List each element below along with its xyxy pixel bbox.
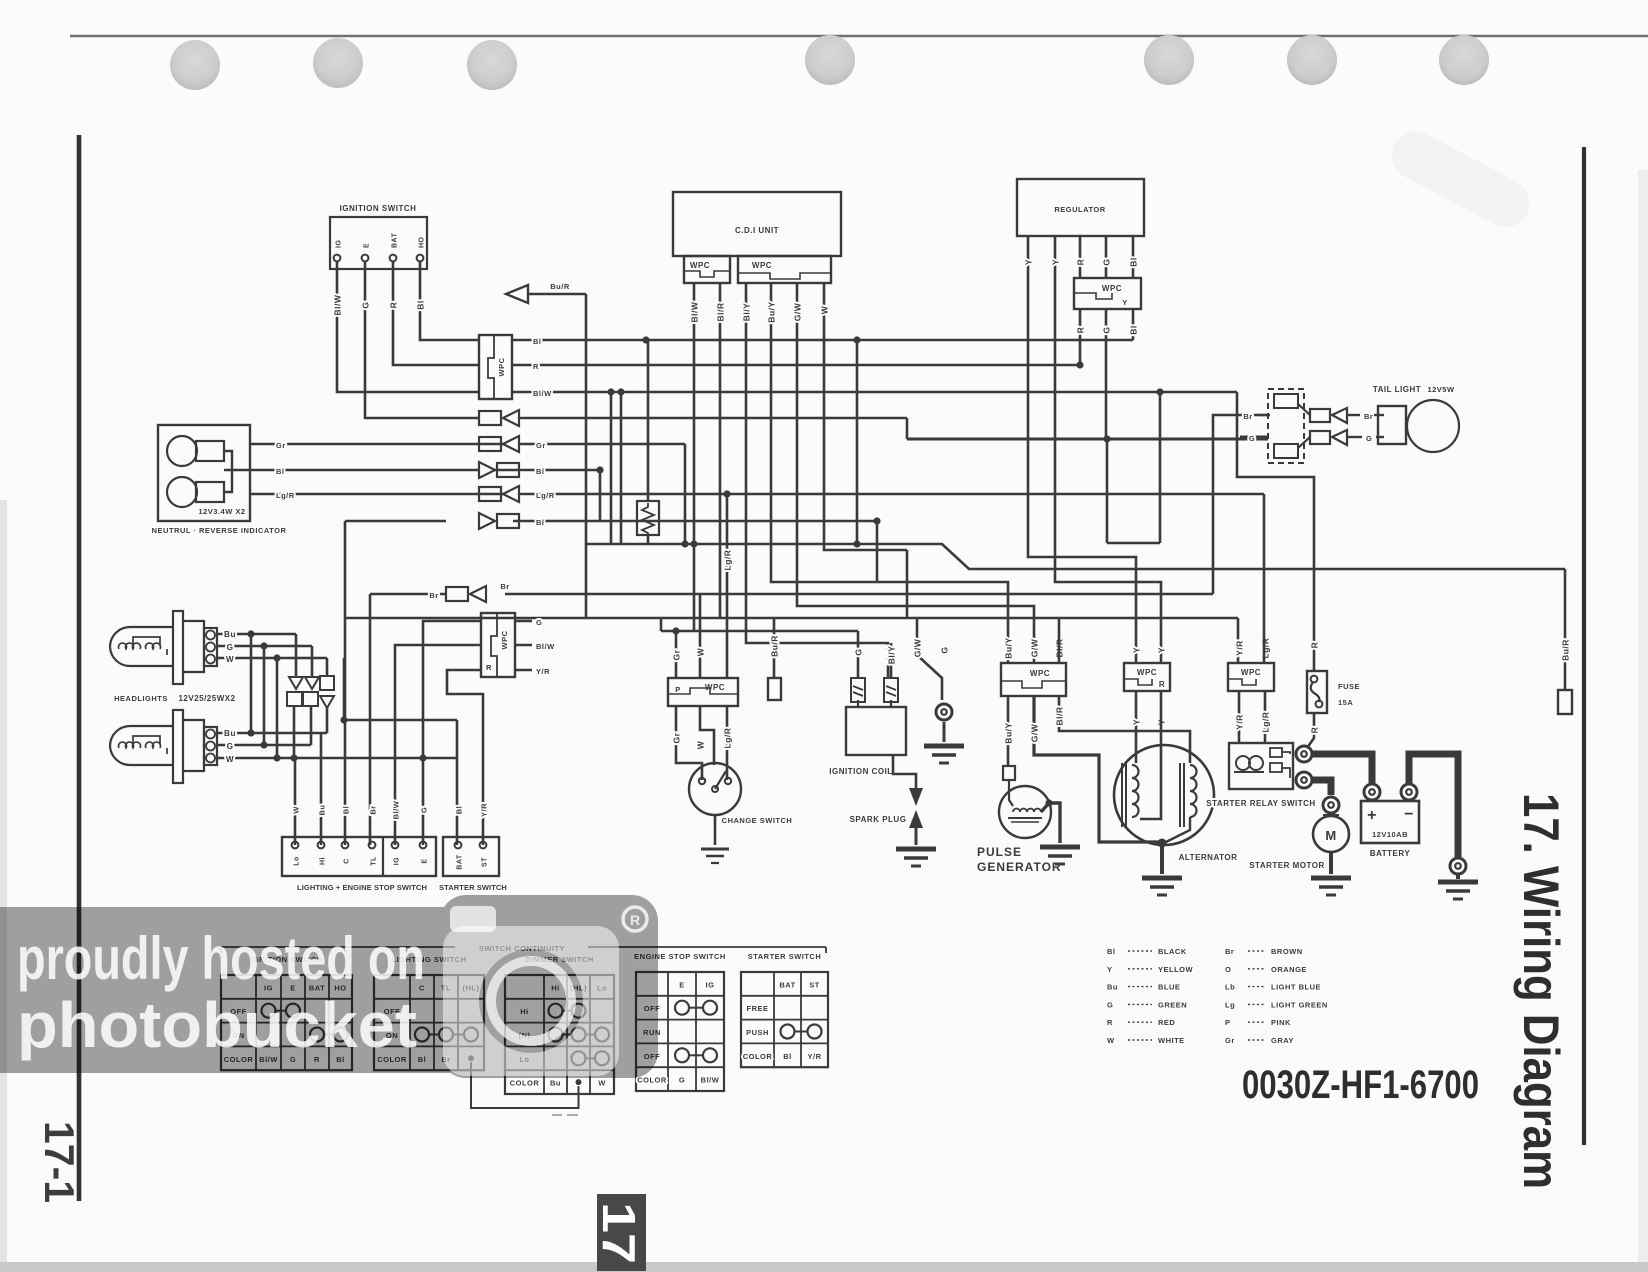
svg-text:G: G	[536, 618, 542, 627]
svg-text:Hi: Hi	[320, 857, 327, 865]
wire Bl/W bus y392	[512, 388, 1237, 398]
svg-text:WPC: WPC	[1241, 668, 1261, 677]
relay eyelet terminals	[1296, 746, 1312, 788]
punch holes	[170, 35, 1489, 90]
svg-text:G: G	[1249, 434, 1255, 443]
svg-text:0030Z-HF1-6700: 0030Z-HF1-6700	[1242, 1063, 1479, 1107]
svg-text:BROWN: BROWN	[1271, 947, 1303, 956]
wire G coil bus y631	[661, 618, 858, 635]
svg-text:G: G	[854, 648, 864, 655]
starter relay wires	[1235, 494, 1271, 743]
svg-text:12V25/25WX2: 12V25/25WX2	[178, 694, 235, 703]
wire G bus y439	[907, 392, 1268, 543]
svg-text:WPC: WPC	[1030, 669, 1050, 678]
svg-text:FREE: FREE	[746, 1004, 768, 1013]
svg-text:E: E	[422, 858, 429, 863]
svg-text:Bl/Y: Bl/Y	[887, 646, 897, 665]
svg-text:R: R	[1107, 1018, 1113, 1027]
svg-text:15A: 15A	[1338, 698, 1353, 707]
svg-text:Y/R: Y/R	[480, 803, 489, 817]
svg-text:STARTER SWITCH: STARTER SWITCH	[439, 883, 507, 892]
svg-text:Bu/R: Bu/R	[1561, 639, 1571, 661]
svg-text:Y/R: Y/R	[1235, 714, 1245, 730]
connector row Bl (y521)	[479, 513, 545, 529]
svg-text:O: O	[1225, 965, 1231, 974]
svg-text:BAT: BAT	[779, 980, 795, 989]
connector WPC (starter relay)	[1228, 638, 1274, 691]
alternator wires Y Y	[1132, 691, 1167, 752]
svg-text:Bl: Bl	[783, 1052, 792, 1061]
svg-text:Lg/R: Lg/R	[723, 550, 733, 571]
svg-text:LIGHTING + ENGINE STOP SWITCH: LIGHTING + ENGINE STOP SWITCH	[297, 883, 427, 892]
tail light connector (dashed)	[1240, 389, 1310, 463]
svg-text:−: −	[1404, 806, 1414, 823]
wire Y/R bus y618	[345, 618, 1238, 663]
svg-text:Bu/R: Bu/R	[550, 282, 570, 291]
wire color legend	[1107, 947, 1328, 1045]
left border line	[77, 135, 82, 1201]
svg-text:Y: Y	[1024, 259, 1034, 265]
svg-text:Y/R: Y/R	[1235, 640, 1245, 656]
svg-text:Gr: Gr	[1225, 1036, 1235, 1045]
svg-text:Gr: Gr	[672, 732, 682, 743]
connector row Lg/R (y494)	[479, 486, 555, 502]
dimmer switch continuity table	[505, 955, 614, 1094]
svg-text:PULSE: PULSE	[977, 845, 1022, 859]
svg-text:WPC: WPC	[752, 261, 772, 270]
svg-text:G: G	[227, 742, 234, 751]
svg-text:17. Wiring Diagram: 17. Wiring Diagram	[1513, 793, 1569, 1189]
pulse generator ground	[1040, 799, 1080, 864]
ignition switch continuity table	[221, 955, 352, 1070]
svg-text:Bu: Bu	[224, 729, 236, 738]
C.D.I unit	[673, 192, 841, 283]
connector row Bl (y470)	[479, 462, 545, 478]
svg-text:Bu/Y: Bu/Y	[767, 301, 777, 322]
svg-text:W: W	[696, 740, 706, 749]
svg-text:BLUE: BLUE	[1158, 983, 1180, 992]
svg-text:FUSE: FUSE	[1338, 682, 1360, 691]
svg-text:Y: Y	[1051, 259, 1061, 265]
wire x611 drop	[607, 388, 614, 544]
svg-text:BATTERY: BATTERY	[1370, 849, 1411, 858]
svg-text:IG: IG	[394, 857, 401, 865]
svg-text:G: G	[1366, 434, 1372, 443]
scanner smudge top right	[1383, 123, 1538, 236]
svg-text:12V10AB: 12V10AB	[1372, 830, 1408, 839]
svg-text:STARTER MOTOR: STARTER MOTOR	[1249, 861, 1325, 870]
starter motor	[1249, 797, 1349, 874]
svg-text:G: G	[361, 301, 371, 308]
arrow connector Bu/R	[506, 282, 586, 303]
svg-text:12V5W: 12V5W	[1427, 385, 1455, 394]
svg-text:STARTER SWITCH: STARTER SWITCH	[748, 952, 822, 961]
engine ground	[924, 746, 964, 763]
wire Lg/R row y494	[250, 490, 1264, 500]
svg-text:Bl/W: Bl/W	[533, 389, 552, 398]
ignition switch wires Bl/W G R Bl	[333, 262, 480, 418]
svg-text:W: W	[598, 1079, 606, 1088]
svg-text:G: G	[1107, 1000, 1113, 1009]
wire W bus y720	[340, 658, 457, 845]
svg-text:CHANGE SWITCH: CHANGE SWITCH	[722, 816, 793, 825]
starter motor cable	[1313, 780, 1331, 795]
headlight 1	[110, 611, 217, 684]
svg-text:Br: Br	[429, 591, 438, 600]
wire Bl bus y340	[512, 336, 1133, 346]
svg-text:R: R	[1076, 327, 1086, 334]
svg-text:Y/R: Y/R	[807, 1052, 821, 1061]
svg-text:Bu: Bu	[318, 805, 327, 816]
svg-text:Bl: Bl	[455, 806, 464, 815]
svg-text:G/W: G/W	[1030, 723, 1040, 742]
svg-text:Y/R: Y/R	[536, 667, 550, 676]
svg-text:Bu: Bu	[224, 630, 236, 639]
svg-text:WPC: WPC	[690, 261, 710, 270]
starter switch continuity table	[741, 952, 828, 1067]
svg-text:PINK: PINK	[1271, 1018, 1291, 1027]
svg-text:Bl: Bl	[533, 337, 542, 346]
WPC P wires Gr W Lg/R	[672, 494, 733, 780]
svg-text:GENERATOR: GENERATOR	[977, 860, 1062, 874]
svg-text:G: G	[1102, 326, 1112, 333]
svg-text:R: R	[533, 362, 539, 371]
CDI wires Bl/W Bl/R Bl/Y Bu/Y G/W W	[690, 283, 1035, 678]
svg-text:Bl/W: Bl/W	[701, 1076, 720, 1085]
svg-text:Br: Br	[1364, 412, 1373, 421]
svg-text:IG: IG	[706, 980, 715, 989]
svg-text:Bl: Bl	[536, 518, 545, 527]
svg-text:G: G	[420, 807, 429, 813]
connector WPC R (harness to switches)	[481, 613, 515, 677]
svg-text:17-1: 17-1	[36, 1121, 83, 1203]
connector WPC Y (regulator)	[1074, 278, 1141, 309]
battery positive cable	[1313, 754, 1372, 783]
switch continuity bracket	[221, 944, 826, 953]
svg-text:Bl/W: Bl/W	[690, 301, 700, 322]
svg-text:ORANGE: ORANGE	[1271, 965, 1307, 974]
headlight 1 wires Bu G W	[217, 630, 327, 664]
wire Bu/R vertical	[585, 294, 588, 618]
svg-text:C: C	[344, 858, 351, 864]
svg-text:LIGHT GREEN: LIGHT GREEN	[1271, 1000, 1328, 1009]
svg-text:Bl/R: Bl/R	[1055, 707, 1065, 726]
svg-text:ALTERNATOR: ALTERNATOR	[1179, 853, 1238, 862]
frame ground eyelet	[1450, 858, 1466, 879]
svg-text:TAIL LIGHT: TAIL LIGHT	[1373, 385, 1421, 394]
connector row Gr (y444)	[479, 436, 546, 452]
watermark text	[17, 925, 425, 1061]
spark plug	[850, 755, 923, 845]
svg-text:W: W	[820, 305, 830, 314]
svg-text:IGNITION COIL: IGNITION COIL	[829, 767, 892, 776]
svg-text:Bu/Y: Bu/Y	[1004, 637, 1014, 658]
svg-text:BAT: BAT	[392, 232, 399, 248]
connector Br (y594)	[429, 582, 509, 602]
wire Gr row y444	[250, 441, 685, 450]
svg-text:R: R	[486, 663, 492, 672]
table interconnect wire	[471, 1062, 579, 1108]
regulator lower wires R G Bl	[1076, 309, 1139, 439]
headlight 2 wires Bu G W	[217, 729, 457, 764]
svg-text:YELLOW: YELLOW	[1158, 965, 1194, 974]
svg-text:COLOR: COLOR	[510, 1079, 540, 1088]
svg-text:E: E	[364, 243, 371, 248]
svg-text:Bl: Bl	[536, 467, 545, 476]
svg-text:P: P	[1225, 1018, 1231, 1027]
svg-text:WPC: WPC	[1102, 284, 1122, 293]
svg-text:R: R	[389, 302, 399, 309]
svg-text:P: P	[675, 685, 681, 694]
svg-text:E: E	[679, 980, 685, 989]
svg-text:Y: Y	[1132, 647, 1142, 653]
svg-text:Lb: Lb	[1225, 983, 1235, 992]
svg-text:R: R	[630, 912, 640, 928]
wire Bl/W to fuse (y477)	[1237, 392, 1320, 671]
svg-text:Lg/R: Lg/R	[276, 491, 295, 500]
svg-text:COLOR: COLOR	[743, 1052, 773, 1061]
svg-text:TL: TL	[371, 856, 378, 866]
top border line	[70, 35, 1648, 37]
regulator	[1017, 179, 1144, 236]
svg-text:GREEN: GREEN	[1158, 1000, 1187, 1009]
connector row 1 (y418)	[479, 410, 519, 426]
lighting switch continuity table	[374, 955, 484, 1070]
svg-text:WPC: WPC	[1137, 668, 1157, 677]
svg-text:HO: HO	[419, 236, 426, 248]
svg-text:C.D.I UNIT: C.D.I UNIT	[735, 226, 779, 235]
svg-text:R: R	[1076, 259, 1086, 266]
regulator wires Y Y R G Bl	[1024, 236, 1162, 663]
right border line	[1582, 147, 1586, 1145]
svg-text:Lg/R: Lg/R	[1261, 712, 1271, 733]
svg-text:M: M	[1325, 828, 1336, 843]
cluster feeds	[294, 634, 327, 758]
stray mark below dimmer table	[552, 1114, 562, 1116]
svg-text:Bl: Bl	[416, 300, 426, 310]
headlight 2	[110, 710, 217, 783]
svg-text:Y: Y	[1107, 965, 1113, 974]
svg-text:R: R	[1310, 727, 1320, 734]
wire x857 drop	[856, 340, 859, 544]
headlights label	[114, 694, 235, 703]
svg-text:Bu/Y: Bu/Y	[1004, 722, 1014, 743]
svg-text:RED: RED	[1158, 1018, 1175, 1027]
ignition coil	[829, 631, 906, 776]
svg-text:Bl/W: Bl/W	[392, 800, 401, 819]
svg-text:photobucket: photobucket	[17, 989, 417, 1061]
starter switch box	[439, 803, 507, 892]
wire G/W eyelet branch	[913, 618, 950, 700]
spark plug ground	[896, 849, 936, 866]
svg-text:Y: Y	[1157, 647, 1167, 653]
wire bus y544	[586, 540, 1565, 569]
svg-text:SPARK PLUG: SPARK PLUG	[850, 815, 907, 824]
wire x621 drop	[620, 392, 623, 544]
resistor	[637, 340, 659, 544]
svg-text:R: R	[1159, 680, 1165, 689]
svg-text:REGULATOR: REGULATOR	[1054, 205, 1105, 214]
svg-text:Gr: Gr	[276, 441, 286, 450]
svg-text:LIGHT BLUE: LIGHT BLUE	[1271, 983, 1321, 992]
svg-text:G: G	[940, 646, 950, 653]
svg-text:IG: IG	[336, 240, 343, 248]
fuse 15A	[1307, 671, 1360, 713]
wire Bu/R pigtail (mid)	[768, 618, 781, 700]
svg-text:Br: Br	[500, 582, 509, 591]
wire Br bus y594	[370, 415, 1270, 594]
svg-text:Lg/R: Lg/R	[723, 728, 733, 749]
tail light bullet connectors	[1310, 408, 1384, 445]
svg-text:G/W: G/W	[913, 638, 923, 657]
wire Gr drop x685	[684, 444, 687, 544]
svg-text:W: W	[292, 806, 301, 814]
svg-text:Bl/R: Bl/R	[716, 303, 726, 322]
starter relay switch	[1206, 743, 1315, 808]
wire R bus y365	[512, 361, 1084, 371]
dimmer diode cluster	[287, 676, 334, 708]
svg-text:Y: Y	[1122, 298, 1128, 307]
svg-text:Bl/W: Bl/W	[536, 642, 555, 651]
fuse lower wire R	[1307, 713, 1320, 748]
svg-text:G/W: G/W	[1030, 638, 1040, 657]
connector WPC (pulse generator)	[1001, 637, 1066, 696]
svg-text:Bl/W: Bl/W	[333, 294, 343, 315]
connector WPC (alternator)	[1124, 647, 1170, 691]
svg-text:Br: Br	[369, 805, 378, 814]
svg-text:COLOR: COLOR	[637, 1076, 667, 1085]
svg-text:Gr: Gr	[672, 649, 682, 660]
svg-text:proudly hosted on: proudly hosted on	[17, 925, 425, 992]
svg-text:+: +	[1367, 807, 1377, 824]
svg-text:Br: Br	[1225, 947, 1234, 956]
svg-text:WPC: WPC	[500, 630, 509, 649]
switch feed verticals	[295, 521, 370, 845]
pulse generator	[977, 766, 1062, 874]
lighting + engine stop switch box	[282, 837, 436, 892]
connector WPC (ignition harness)	[479, 335, 512, 399]
svg-text:NEUTRUL · REVERSE INDICATOR: NEUTRUL · REVERSE INDICATOR	[152, 526, 287, 535]
tail light 12V5W	[1373, 385, 1459, 452]
alternator	[1114, 691, 1237, 862]
wire Bu/R pigtail	[1558, 569, 1572, 714]
svg-text:W: W	[226, 755, 234, 764]
connector WPC P (change switch)	[668, 678, 738, 706]
headlight bus verticals	[251, 634, 277, 758]
alternator ground	[1142, 839, 1182, 896]
svg-text:G: G	[1102, 258, 1112, 265]
svg-text:Lg: Lg	[1225, 1000, 1235, 1009]
wire Bl row y521	[345, 470, 881, 582]
svg-text:STARTER RELAY SWITCH: STARTER RELAY SWITCH	[1206, 799, 1315, 808]
svg-text:Bl: Bl	[1107, 947, 1116, 956]
battery negative cable to frame	[1409, 754, 1458, 858]
chapter tab 17	[593, 1194, 646, 1271]
pulse generator wires	[1004, 618, 1191, 842]
svg-text:Bu/R: Bu/R	[770, 635, 780, 657]
eyelet terminal (engine ground)	[936, 704, 952, 742]
switch wire labels	[292, 800, 429, 819]
svg-text:Y: Y	[1132, 719, 1142, 725]
svg-text:G/W: G/W	[793, 302, 803, 321]
svg-text:17: 17	[593, 1202, 645, 1264]
svg-text:Gr: Gr	[536, 441, 546, 450]
svg-text:BLACK: BLACK	[1158, 947, 1187, 956]
svg-text:Bl: Bl	[1129, 325, 1139, 335]
neutral reverse indicator	[152, 425, 287, 535]
svg-text:PUSH: PUSH	[746, 1028, 769, 1037]
svg-text:Br: Br	[1243, 412, 1252, 421]
wire G row y418 right	[519, 418, 907, 618]
battery 12V10AB	[1361, 784, 1419, 858]
engine stop switch continuity table	[634, 952, 726, 1091]
frame ground	[1438, 882, 1478, 899]
svg-text:ST: ST	[809, 980, 820, 989]
svg-text:Bl: Bl	[342, 806, 351, 815]
svg-text:R: R	[1310, 642, 1320, 649]
svg-text:GRAY: GRAY	[1271, 1036, 1294, 1045]
change switch ground	[701, 849, 729, 863]
svg-text:12V3.4W X2: 12V3.4W X2	[198, 507, 245, 516]
svg-text:Bl: Bl	[276, 467, 285, 476]
wire Bl row y470	[232, 466, 604, 476]
ignition switch	[330, 204, 427, 269]
starter motor ground	[1311, 878, 1351, 895]
svg-text:WPC: WPC	[497, 357, 506, 376]
svg-text:G: G	[679, 1076, 685, 1085]
svg-text:Bu: Bu	[1107, 983, 1118, 992]
svg-text:BAT: BAT	[457, 854, 464, 870]
svg-text:W: W	[696, 647, 706, 656]
svg-text:Lg/R: Lg/R	[536, 491, 555, 500]
svg-text:IGNITION SWITCH: IGNITION SWITCH	[340, 204, 417, 213]
svg-text:G: G	[227, 643, 234, 652]
svg-text:ST: ST	[482, 857, 489, 867]
watermark camera logo	[443, 926, 619, 1076]
svg-text:HEADLIGHTS: HEADLIGHTS	[114, 694, 168, 703]
svg-text:WHITE: WHITE	[1158, 1036, 1185, 1045]
svg-text:W: W	[1107, 1036, 1115, 1045]
svg-text:Bl: Bl	[1129, 257, 1139, 267]
svg-text:Lg/R: Lg/R	[1261, 638, 1271, 659]
change switch	[689, 763, 792, 845]
svg-text:W: W	[226, 655, 234, 664]
svg-text:Lo: Lo	[294, 856, 301, 866]
photobucket watermark banner	[0, 895, 658, 1078]
WPC R wires G Bl/W Y/R	[395, 618, 555, 845]
svg-text:Bu: Bu	[550, 1079, 561, 1088]
svg-text:Bl/Y: Bl/Y	[742, 303, 752, 322]
